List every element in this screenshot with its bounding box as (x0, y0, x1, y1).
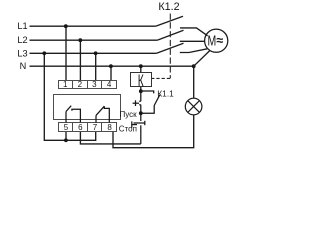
svg-text:М: М (208, 31, 217, 48)
svg-text:5: 5 (64, 123, 69, 132)
wire N drop to lamp top (193, 66, 195, 98)
svg-text:4: 4 (107, 80, 112, 89)
relay internal contact 5-6 pole stub (65, 112, 67, 123)
contactor K1.2 pole 1 blade (156, 16, 183, 26)
node L3 left tap (42, 51, 46, 55)
relay internal contact 5-6 fixed hook (72, 109, 81, 122)
wire N tap to terminal 4 (110, 66, 112, 80)
stop button actuator stem (132, 124, 137, 126)
contactor K1.2 pole 2 blade (157, 30, 183, 40)
wire terminal 8 to lamp bottom (line C) (113, 115, 194, 148)
wire L1 tap to terminal 1 (65, 26, 67, 80)
stop button lower wire (140, 125, 142, 144)
svg-text:≈: ≈ (216, 33, 223, 47)
contactor K1.2 pole 2 output to motor (180, 40, 205, 42)
svg-text:L1: L1 (17, 21, 27, 31)
node terminal 5 junction on line A (64, 138, 68, 142)
stop button bar (134, 122, 145, 124)
contactor K1.2 pole 1 output to motor (180, 28, 208, 36)
mechanical linkage dashed horizontal (151, 77, 170, 79)
node L1 tap (64, 24, 68, 28)
svg-text:6: 6 (78, 123, 83, 132)
start button Puskk upper terminal (139, 91, 141, 101)
svg-text:К1.2: К1.2 (158, 1, 179, 13)
lamp circle (185, 98, 202, 115)
node junction dots (42, 24, 195, 142)
wire terminal 6 to Stop button bottom (line B) (80, 132, 140, 144)
stop button bar end tick (144, 121, 146, 125)
svg-text:1: 1 (63, 80, 68, 89)
svg-text:К1.1: К1.1 (157, 88, 174, 98)
wire L2 bus (30, 39, 158, 41)
svg-text:L3: L3 (17, 48, 27, 58)
auxiliary contact K1.1 blade (154, 95, 160, 106)
relay internal contact 7-8 blade (96, 106, 104, 115)
relay internal contact 7-8 fixed hook (104, 106, 109, 122)
relay top terminal row (59, 81, 117, 89)
contactor K1.2 pole 3 output to motor (180, 49, 207, 53)
auxiliary contact K1.1 top branch (141, 91, 154, 93)
node B coil chain bottom (139, 111, 143, 115)
wire L3 tap to terminal 3 (95, 53, 97, 80)
stop button actuator bar (131, 121, 133, 127)
wire L2 tap to terminal 2 (79, 40, 81, 80)
svg-text:3: 3 (92, 80, 97, 89)
contactor K1.2 pole 3 blade (156, 43, 183, 53)
start button stem (133, 102, 139, 104)
auxiliary contact K1.1 bottom branch (141, 106, 154, 114)
wire L1 bus (30, 25, 156, 27)
relay body (54, 95, 121, 120)
stop button upper wire (140, 113, 142, 121)
relay internal contact 5-6 blade (66, 106, 71, 112)
wire N to motor (194, 51, 210, 67)
wire L3 left drop to bottom line A and terminal 7 (44, 53, 95, 140)
svg-text:Стоп: Стоп (119, 124, 137, 133)
lamp cross (188, 101, 200, 113)
contactor coil K box (131, 73, 152, 87)
start button bridge (135, 100, 137, 106)
start button lower terminal (139, 105, 141, 113)
relay internal contact 7-8 pole stub (95, 115, 97, 122)
motor M circle (205, 29, 228, 52)
wire terminal 5 stub to line A (65, 132, 67, 141)
svg-text:Пуск: Пуск (120, 110, 138, 119)
node A coil chain top (139, 89, 143, 93)
mechanical linkage dashed line (169, 14, 171, 79)
svg-text:2: 2 (78, 80, 83, 89)
wire N bus (30, 65, 194, 67)
relay bottom terminal row (59, 123, 117, 132)
svg-text:8: 8 (107, 123, 112, 132)
node N lamp tap (192, 64, 196, 68)
node N tap (109, 64, 113, 68)
wire L3 bus (30, 52, 157, 54)
svg-text:N: N (20, 61, 27, 71)
wire N drop to K coil (140, 66, 142, 72)
svg-text:7: 7 (93, 123, 98, 132)
node L3 tap (94, 51, 98, 55)
node L2 tap (78, 38, 82, 42)
node N coil tap (139, 64, 143, 68)
svg-text:К: К (138, 72, 145, 91)
svg-text:L2: L2 (17, 35, 27, 45)
wire K coil bottom to node A (140, 87, 142, 92)
